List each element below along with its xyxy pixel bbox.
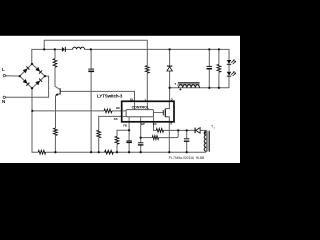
svg-text:LYTSwitch-3: LYTSwitch-3 <box>97 94 123 99</box>
svg-text:FB: FB <box>123 123 127 127</box>
svg-text:BS: BS <box>116 106 120 110</box>
svg-text:S: S <box>170 122 172 126</box>
svg-text:OC: OC <box>153 122 157 126</box>
svg-text:DS: DS <box>114 117 118 121</box>
svg-text:BL: BL <box>130 98 134 102</box>
svg-text:BP: BP <box>141 122 145 126</box>
svg-text:PI-7949a-020316 HLBB: PI-7949a-020316 HLBB <box>169 156 204 160</box>
svg-text:CONTROL: CONTROL <box>132 106 150 110</box>
svg-text:N: N <box>2 99 5 104</box>
svg-text:D: D <box>171 98 173 102</box>
svg-text:L: L <box>2 67 5 72</box>
